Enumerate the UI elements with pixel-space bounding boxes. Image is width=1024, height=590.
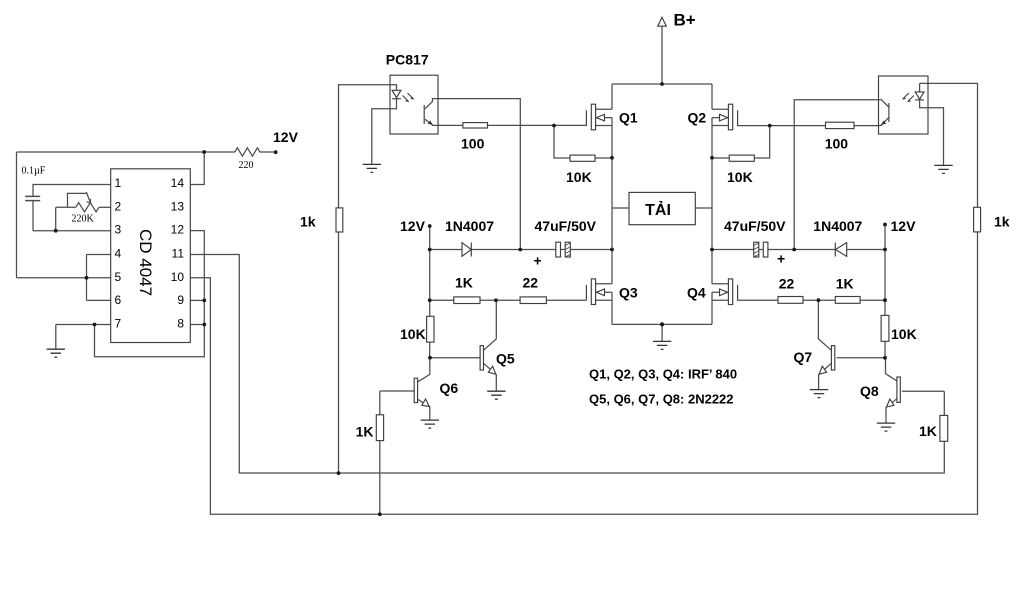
svg-text:10K: 10K <box>727 169 753 185</box>
svg-text:+: + <box>777 251 785 267</box>
svg-text:5: 5 <box>115 270 122 284</box>
svg-text:12V: 12V <box>273 129 299 145</box>
svg-text:9: 9 <box>177 293 184 307</box>
svg-text:1K: 1K <box>836 275 854 291</box>
svg-text:47uF/50V: 47uF/50V <box>724 218 786 234</box>
svg-text:10K: 10K <box>400 326 426 342</box>
svg-text:PC817: PC817 <box>386 52 429 68</box>
svg-text:10K: 10K <box>891 326 917 342</box>
svg-text:+: + <box>534 253 542 269</box>
svg-text:1k: 1k <box>300 214 316 230</box>
svg-text:Q2: Q2 <box>688 109 707 125</box>
svg-text:Q7: Q7 <box>794 349 813 365</box>
svg-text:Q6: Q6 <box>440 380 459 396</box>
svg-text:14: 14 <box>171 176 185 190</box>
svg-text:2: 2 <box>115 199 122 213</box>
svg-text:B+: B+ <box>674 11 696 30</box>
svg-text:CD 4047: CD 4047 <box>136 229 155 296</box>
svg-text:12V: 12V <box>891 218 917 234</box>
svg-text:12: 12 <box>171 223 185 237</box>
svg-text:7: 7 <box>115 317 122 331</box>
svg-text:Q3: Q3 <box>619 284 638 300</box>
svg-text:10: 10 <box>171 270 185 284</box>
svg-text:1K: 1K <box>919 423 937 439</box>
svg-text:Q1: Q1 <box>619 109 638 125</box>
svg-text:1N4007: 1N4007 <box>445 218 494 234</box>
svg-text:6: 6 <box>115 293 122 307</box>
svg-text:13: 13 <box>171 199 185 213</box>
svg-text:22: 22 <box>523 275 539 291</box>
svg-text:8: 8 <box>177 317 184 331</box>
svg-text:4: 4 <box>115 247 122 261</box>
svg-text:100: 100 <box>825 135 849 151</box>
svg-text:1N4007: 1N4007 <box>813 218 862 234</box>
svg-text:Q8: Q8 <box>860 383 879 399</box>
svg-text:0.1µF: 0.1µF <box>22 166 46 177</box>
svg-text:220: 220 <box>239 160 254 171</box>
svg-text:22: 22 <box>779 275 795 291</box>
svg-text:1K: 1K <box>356 424 374 440</box>
svg-text:3: 3 <box>115 223 122 237</box>
svg-text:1k: 1k <box>994 214 1010 230</box>
svg-text:Q5, Q6, Q7, Q8: 2N2222: Q5, Q6, Q7, Q8: 2N2222 <box>589 392 734 407</box>
svg-text:Q1, Q2, Q3, Q4: IRF’ 840: Q1, Q2, Q3, Q4: IRF’ 840 <box>589 367 737 382</box>
svg-text:12V: 12V <box>400 218 426 234</box>
svg-text:1: 1 <box>115 176 122 190</box>
svg-text:47uF/50V: 47uF/50V <box>535 218 597 234</box>
svg-text:220K: 220K <box>72 214 95 225</box>
svg-text:TẢI: TẢI <box>645 200 671 219</box>
svg-text:Q5: Q5 <box>496 351 515 367</box>
svg-text:10K: 10K <box>566 169 592 185</box>
svg-text:Q4: Q4 <box>687 284 706 300</box>
svg-text:100: 100 <box>461 135 485 151</box>
svg-text:1K: 1K <box>455 275 473 291</box>
svg-text:11: 11 <box>172 247 185 261</box>
